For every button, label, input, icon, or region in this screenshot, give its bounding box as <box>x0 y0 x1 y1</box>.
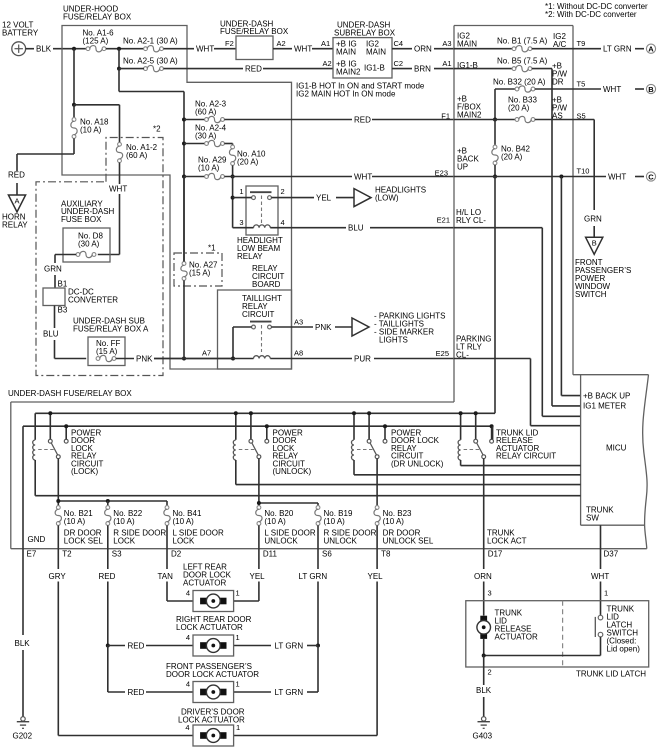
node unlock fuse branch <box>257 501 261 505</box>
svg-text:(30 A): (30 A) <box>78 240 100 249</box>
node A2 branch junction <box>117 47 121 51</box>
svg-text:E21: E21 <box>437 216 450 225</box>
svg-text:ORN: ORN <box>474 572 492 581</box>
svg-text:(20 A): (20 A) <box>501 153 523 162</box>
svg-text:WHT: WHT <box>591 572 609 581</box>
fuse B23 (10 A) DR DOOR UNLOCK SEL / pin T8 <box>374 506 434 559</box>
headlight low beam relay <box>237 186 285 261</box>
svg-text:RED: RED <box>354 116 371 125</box>
svg-text:D11: D11 <box>263 550 278 559</box>
horn relay triangle A <box>2 195 28 230</box>
wire D2 to left rear actuator (TAN) <box>158 549 193 601</box>
svg-text:T8: T8 <box>381 550 391 559</box>
wire LT GRN down to front passenger actuator <box>234 646 318 697</box>
wire D37 to trunk lid latch switch (WHT) <box>591 549 609 616</box>
svg-text:(10 A): (10 A) <box>264 517 286 526</box>
svg-text:D37: D37 <box>604 550 619 559</box>
wire UNLOCK relay output to unlock fuses <box>259 459 318 506</box>
wire subrelay C4 to right box A3 (ORN) <box>392 39 454 54</box>
wire E25 to MICU <box>454 359 581 426</box>
wire taillight coil A8 to E25 (PUR) <box>270 349 454 364</box>
wire D8 to DC-DC converter (GRN) <box>44 255 68 289</box>
wire RED branch to right rear actuator <box>108 641 193 650</box>
svg-text:BLK: BLK <box>476 686 492 695</box>
ground G403 <box>473 717 493 741</box>
svg-text:RELAY CIRCUIT: RELAY CIRCUIT <box>496 452 556 461</box>
pin T5 +B P/W DR to connector B (WHT) <box>552 62 621 95</box>
svg-text:B: B <box>592 239 597 248</box>
wire trunk relay output to D17 <box>483 459 485 549</box>
wire D11 to left rear actuator (YEL) <box>234 549 265 601</box>
node lock fuse branch B21 <box>56 499 60 503</box>
wire +B BACK UP to MICU <box>561 177 580 396</box>
trunk lid latch box <box>466 601 649 679</box>
svg-text:G202: G202 <box>13 731 33 740</box>
svg-text:4: 4 <box>186 589 190 598</box>
svg-text:ACTUATOR: ACTUATOR <box>183 579 226 588</box>
svg-text:WHT: WHT <box>294 45 312 54</box>
svg-text:No. A2-5 (30 A): No. A2-5 (30 A) <box>123 57 178 66</box>
svg-text:*1: *1 <box>208 244 216 253</box>
wire A1-2 to fuse D8 (WHT) <box>98 163 128 255</box>
svg-text:FUSE/RELAY BOX A: FUSE/RELAY BOX A <box>73 325 149 334</box>
svg-text:E25: E25 <box>436 349 449 358</box>
svg-text:A/C: A/C <box>553 40 567 49</box>
svg-text:A2: A2 <box>277 39 286 48</box>
wire junction down to A2-5 row <box>118 49 120 69</box>
fuse A27 (15 A) <box>181 177 218 359</box>
terminal C <box>635 176 644 178</box>
wire taillight relay switch to A3 (PNK) <box>233 318 352 359</box>
node lock fuse branch B22 <box>106 499 110 503</box>
parking lights / taillights / side marker lights target <box>352 312 445 345</box>
pin label E21 H/L LO RLY CL- <box>456 208 486 225</box>
svg-text:C: C <box>648 172 654 181</box>
wire A2-5 to subrelay box A2 (RED) <box>119 59 333 74</box>
pin T9 IG2 A/C to connector A (LT GRN) <box>553 32 632 54</box>
svg-text:3: 3 <box>239 218 243 227</box>
svg-text:LOCK ACT: LOCK ACT <box>487 537 527 546</box>
svg-text:YEL: YEL <box>368 572 384 581</box>
pin label E23 +B BACK UP <box>457 147 479 172</box>
fuse B33 (20 A) <box>454 96 573 123</box>
under-hood fuse/relay box outline <box>62 5 292 370</box>
svg-text:DR: DR <box>552 78 564 87</box>
svg-text:1: 1 <box>236 589 240 598</box>
wire T8 to driver's actuator (YEL) <box>234 549 383 736</box>
trunk lid release actuator relay circuit <box>458 411 580 465</box>
svg-text:MAIN: MAIN <box>366 48 386 57</box>
wire relay pin2 to headlights (YEL) <box>271 194 354 203</box>
svg-text:DOOR LOCK ACTUATOR: DOOR LOCK ACTUATOR <box>166 670 259 679</box>
svg-text:CONVERTER: CONVERTER <box>68 296 118 305</box>
fuse A2-1 (30 A) <box>123 37 178 52</box>
wire E23/T10 row inside box <box>454 176 573 178</box>
svg-text:F2: F2 <box>225 39 234 48</box>
svg-text:(UNLOCK): (UNLOCK) <box>273 467 312 476</box>
svg-text:IG2 MAIN HOT In ON mode: IG2 MAIN HOT In ON mode <box>296 90 396 99</box>
svg-text:1: 1 <box>236 633 240 642</box>
wire DR UNLOCK relay output to B23 <box>376 459 378 506</box>
fuse B42 (20 A) <box>492 120 531 177</box>
svg-text:A7: A7 <box>202 349 211 358</box>
power door lock relay circuit (LOCK) <box>33 411 581 495</box>
svg-text:IG1-B: IG1-B <box>364 64 385 73</box>
front passenger power window switch triangle B <box>575 237 631 299</box>
svg-text:+B BACK UP: +B BACK UP <box>583 392 630 401</box>
svg-text:No. B32 (20 A): No. B32 (20 A) <box>493 78 546 87</box>
svg-text:(10 A): (10 A) <box>173 517 195 526</box>
svg-text:RED: RED <box>128 641 145 650</box>
svg-text:1: 1 <box>604 589 608 598</box>
wire A10 junction down to headlight relay <box>232 177 234 228</box>
dash-dot boundary *2 with DC-DC converter region <box>36 125 163 376</box>
wire B5 to MICU IG1 METER <box>532 69 581 406</box>
svg-text:MAIN2: MAIN2 <box>336 68 361 77</box>
svg-text:(10 A): (10 A) <box>198 164 220 173</box>
node A2-5 feed <box>117 67 121 71</box>
node A29/A10 junction <box>231 175 235 179</box>
under-dash subrelay box <box>333 21 396 79</box>
svg-text:3: 3 <box>488 589 492 598</box>
wire S3 unlock feed (RED) <box>99 549 116 646</box>
svg-text:LOCK: LOCK <box>173 537 195 546</box>
fuse B19 (10 A) R SIDE DOOR UNLOCK / pin S6 <box>315 503 377 559</box>
svg-text:(LOW): (LOW) <box>375 194 399 203</box>
wire battery to under-hood box (BLK) <box>26 45 87 54</box>
svg-text:ORN: ORN <box>414 45 432 54</box>
wire A2-1 to under-dash box (WHT) <box>164 45 237 54</box>
wire A29 to right box E23 (WHT) <box>224 169 454 182</box>
wire LOCK relay output to lock fuses <box>58 459 167 506</box>
svg-text:(20 A): (20 A) <box>237 158 259 167</box>
svg-text:UP: UP <box>457 163 468 172</box>
svg-text:C2: C2 <box>394 59 404 68</box>
node +B BACK UP tap <box>559 175 563 179</box>
svg-text:LOCK: LOCK <box>113 537 135 546</box>
wire DC-DC to fuse FF (BLU) <box>43 306 86 359</box>
svg-text:B1: B1 <box>58 280 68 289</box>
node B42 to backup feed <box>493 175 497 179</box>
svg-text:1: 1 <box>236 723 240 732</box>
fuse B21 (10 A) DR DOOR LOCK SEL / pin T2 <box>55 506 103 559</box>
left rear door lock actuator <box>183 563 240 612</box>
relay circuit board label <box>252 264 285 289</box>
svg-text:A: A <box>648 45 654 54</box>
svg-text:4: 4 <box>281 218 285 227</box>
driver's door lock actuator <box>178 708 245 747</box>
wire subrelay C2 to right box A1 (BRN) <box>392 59 454 74</box>
node LT GRN branch right rear <box>316 644 320 648</box>
svg-text:PNK: PNK <box>136 354 153 363</box>
wire D17 to trunk lid release actuator (ORN) <box>474 549 492 616</box>
svg-text:No. A2-1 (30 A): No. A2-1 (30 A) <box>123 37 178 46</box>
svg-text:BLK: BLK <box>15 639 31 648</box>
svg-text:ACTUATOR: ACTUATOR <box>495 633 538 642</box>
svg-text:RLY CL-: RLY CL- <box>456 216 486 225</box>
wire E21 to MICU <box>454 228 581 417</box>
wire trunk actuator to ground G403 (BLK) <box>476 656 492 717</box>
headlights (low) target <box>354 186 426 207</box>
svg-text:GND: GND <box>28 535 46 544</box>
fuse B41 (10 A) L SIDE DOOR LOCK / pin D2 <box>164 501 224 559</box>
svg-text:FUSE/RELAY BOX: FUSE/RELAY BOX <box>220 27 289 36</box>
fuse A18 (10 A) <box>71 105 109 154</box>
DC-DC converter <box>43 288 118 306</box>
svg-text:1: 1 <box>236 680 240 689</box>
node A1-2 branch <box>72 103 76 107</box>
svg-text:A2: A2 <box>323 59 332 68</box>
svg-text:SW: SW <box>586 514 599 523</box>
terminal A <box>635 48 644 50</box>
svg-text:WHT: WHT <box>608 173 626 182</box>
fuse D8 (30 A) in auxiliary box <box>55 228 110 262</box>
svg-text:D2: D2 <box>171 550 182 559</box>
wire S6 lock feed (LT GRN) <box>299 549 328 646</box>
trunk lid release actuator motor <box>477 616 491 656</box>
svg-text:BOARD: BOARD <box>252 280 281 289</box>
svg-text:A: A <box>14 196 19 205</box>
node B33 feed junction <box>493 118 497 122</box>
svg-text:RED: RED <box>128 688 145 697</box>
svg-text:MAIN2: MAIN2 <box>457 111 482 120</box>
svg-text:*2: *2 <box>153 125 161 134</box>
svg-text:LT GRN: LT GRN <box>275 688 304 697</box>
wire relay +B supply line <box>35 412 495 414</box>
svg-text:4: 4 <box>186 680 190 689</box>
wire A2-3 to right box F1 (RED) <box>224 112 454 125</box>
svg-text:WHT: WHT <box>196 45 214 54</box>
svg-text:(60 A): (60 A) <box>195 108 217 117</box>
svg-text:LIGHTS: LIGHTS <box>379 336 408 345</box>
svg-text:(125 A): (125 A) <box>83 37 109 46</box>
pin labels IG2 MAIN (A3) <box>457 32 477 49</box>
wire under-dash box to subrelay box A1 (WHT) <box>273 39 333 54</box>
fuse A1-2 (60 A) <box>116 142 157 162</box>
svg-text:BATTERY: BATTERY <box>2 29 39 38</box>
svg-text:B3: B3 <box>58 306 68 315</box>
wire relay pin1 <box>233 197 252 199</box>
svg-text:(15 A): (15 A) <box>189 269 211 278</box>
svg-text:FUSE BOX: FUSE BOX <box>61 215 102 224</box>
svg-text:E7: E7 <box>27 550 37 559</box>
pin S5 +B P/W AS to power window switch <box>552 96 594 211</box>
svg-text:WHT: WHT <box>354 173 372 182</box>
wire battery junction down to A18/A1-2 branch <box>73 49 75 105</box>
svg-text:MAIN: MAIN <box>336 48 356 57</box>
svg-text:Lid open): Lid open) <box>607 645 641 654</box>
node A27 junction on PNK wire <box>182 357 186 361</box>
right rear door lock actuator <box>176 615 252 656</box>
svg-text:T9: T9 <box>577 39 586 48</box>
svg-text:MICU: MICU <box>606 444 627 453</box>
svg-text:B: B <box>648 85 654 94</box>
taillight relay circuit box <box>218 290 292 369</box>
wire relay ground/contact line from E7 GND <box>23 426 493 549</box>
battery 12V <box>2 21 39 56</box>
node A2-3 feed <box>182 118 186 122</box>
wire relay coil to E21 (BLU) <box>233 216 454 233</box>
svg-text:LT GRN: LT GRN <box>603 45 632 54</box>
svg-text:BLU: BLU <box>348 224 364 233</box>
svg-text:(10 A): (10 A) <box>383 517 405 526</box>
svg-text:2: 2 <box>281 187 285 196</box>
node taillight coil junction <box>231 357 235 361</box>
svg-text:RELAY: RELAY <box>2 221 28 230</box>
svg-text:BRN: BRN <box>414 65 431 74</box>
auxiliary under-dash fuse box label <box>61 200 115 224</box>
wire A7/PNK into taillight coil <box>154 349 254 359</box>
svg-text:YEL: YEL <box>250 572 266 581</box>
wire LT GRN branch to right rear actuator <box>234 641 318 650</box>
svg-text:T10: T10 <box>577 167 590 176</box>
svg-text:A8: A8 <box>294 349 303 358</box>
svg-text:MAIN: MAIN <box>457 40 477 49</box>
pin label E25 PARKING LT RLY CL- <box>456 335 491 360</box>
under-dash fuse/relay box (B-fuse section) outline <box>454 26 573 403</box>
wire GRN to front passenger power window switch <box>584 215 602 238</box>
svg-text:RED: RED <box>8 171 25 180</box>
svg-text:*2: With DC-DC converter: *2: With DC-DC converter <box>545 10 637 19</box>
svg-text:F1: F1 <box>441 112 450 121</box>
fuse A1-6 (125 A) <box>83 29 115 52</box>
svg-text:RED: RED <box>99 572 116 581</box>
pin T10 to connector C (WHT) <box>573 167 626 182</box>
trunk lid latch switch <box>595 605 640 654</box>
svg-text:TRUNK LID LATCH: TRUNK LID LATCH <box>576 670 646 679</box>
taillight relay <box>250 322 272 359</box>
fuse B1 (7.5 A) <box>454 37 573 52</box>
svg-text:T2: T2 <box>62 550 72 559</box>
svg-text:GRN: GRN <box>584 215 602 224</box>
svg-text:LOCK SEL: LOCK SEL <box>64 537 104 546</box>
power door lock relay circuit (UNLOCK) <box>233 411 580 484</box>
svg-text:LT GRN: LT GRN <box>275 641 304 650</box>
dash-dot boundary *1 around fuse A27 <box>174 244 222 287</box>
svg-text:PNK: PNK <box>315 323 332 332</box>
wire A1-6 to A2-1 <box>106 48 144 50</box>
under-dash fuse/relay box (pass-through F2 to A2) <box>220 19 289 59</box>
fuse A10 (20 A) <box>229 144 266 177</box>
svg-text:YEL: YEL <box>316 194 332 203</box>
node RED branch right rear <box>106 644 110 648</box>
wire branch to fuse A1-2 <box>74 105 120 143</box>
svg-text:PUR: PUR <box>354 354 371 363</box>
fuse B20 (10 A) L SIDE DOOR UNLOCK / pin D11 <box>256 506 316 559</box>
svg-text:LOCK ACTUATOR: LOCK ACTUATOR <box>176 623 243 632</box>
wire B42 feed down to door lock relay supply <box>494 177 496 414</box>
svg-text:RED: RED <box>245 65 262 74</box>
svg-text:G403: G403 <box>473 731 493 740</box>
svg-text:WHT: WHT <box>603 85 621 94</box>
ground G202 <box>13 717 33 741</box>
svg-text:(10 A): (10 A) <box>113 517 135 526</box>
power door lock relay circuit (DR UNLOCK) <box>352 411 581 475</box>
svg-text:RELAY: RELAY <box>237 252 263 261</box>
node A29 feed <box>182 175 186 179</box>
note IG1-B / IG2 MAIN hot modes <box>296 82 425 99</box>
svg-text:(10 A): (10 A) <box>324 517 346 526</box>
wire T2 to driver's actuator (GRY) <box>49 549 193 736</box>
fuse A2-4 (30 A) <box>184 124 233 147</box>
svg-text:SWITCH: SWITCH <box>575 290 607 299</box>
fuse B22 (10 A) R SIDE DOOR LOCK / pin S3 <box>105 501 167 559</box>
svg-text:BLU: BLU <box>43 330 59 339</box>
wire E7 to ground G202 (BLK) <box>15 549 31 717</box>
svg-text:SUBRELAY BOX: SUBRELAY BOX <box>334 28 396 37</box>
svg-text:4: 4 <box>185 723 189 732</box>
svg-text:AS: AS <box>552 112 563 121</box>
svg-text:(15 A): (15 A) <box>96 347 118 356</box>
under-dash sub fuse/relay box A with fuse FF (15 A) <box>73 317 149 366</box>
pin label F1 +B F/BOX MAIN2 <box>457 95 482 120</box>
fuse A29 (10 A) <box>184 156 227 180</box>
svg-text:(60 A): (60 A) <box>126 151 148 160</box>
node headlight relay pin1 junction <box>231 196 235 200</box>
svg-text:UNDER-DASH FUSE/RELAY BOX: UNDER-DASH FUSE/RELAY BOX <box>8 389 132 398</box>
svg-text:(30 A): (30 A) <box>195 132 217 141</box>
node A2-4 feed <box>182 142 186 146</box>
wire feeder from A2-5 junction down to A-fuse bank <box>119 69 184 262</box>
fuse A2-3 (60 A) <box>184 100 227 123</box>
svg-text:IG1 METER: IG1 METER <box>583 402 626 411</box>
svg-text:E23: E23 <box>435 169 448 178</box>
svg-text:GRN: GRN <box>44 265 62 274</box>
svg-text:A1: A1 <box>442 59 451 68</box>
svg-text:TAN: TAN <box>158 572 174 581</box>
svg-text:WHT: WHT <box>109 185 127 194</box>
fuse A2-5 (30 A) <box>123 57 178 72</box>
svg-text:D17: D17 <box>488 550 503 559</box>
wire A18 to horn relay (RED) <box>8 154 74 195</box>
note *1/*2 DC-DC converter legend <box>545 2 648 19</box>
wire FF to taillight relay A7 (PNK) <box>116 354 232 363</box>
svg-text:UNLOCK: UNLOCK <box>264 537 298 546</box>
wire RED down to front passenger actuator <box>108 646 193 697</box>
svg-text:A3: A3 <box>442 39 451 48</box>
wire trunk relay contact from ground line <box>492 426 494 439</box>
svg-text:UNLOCK: UNLOCK <box>324 537 358 546</box>
svg-text:C4: C4 <box>394 39 404 48</box>
svg-text:(20 A): (20 A) <box>508 104 530 113</box>
under-dash fuse/relay box (door lock section) outline <box>8 389 647 549</box>
svg-text:4: 4 <box>186 633 190 642</box>
svg-text:(LOCK): (LOCK) <box>71 467 98 476</box>
svg-text:FUSE/RELAY BOX: FUSE/RELAY BOX <box>63 13 132 22</box>
MICU box <box>573 375 649 549</box>
terminal B <box>635 88 644 90</box>
svg-text:A1: A1 <box>321 39 330 48</box>
pin D17 TRUNK LOCK ACT <box>487 529 527 559</box>
svg-text:UNLOCK SEL: UNLOCK SEL <box>383 537 434 546</box>
fuse B32 (20 A) <box>493 78 573 120</box>
svg-text:S6: S6 <box>322 550 332 559</box>
svg-text:(10 A): (10 A) <box>64 517 86 526</box>
wire latch switch to actuator return <box>484 637 601 656</box>
svg-text:2: 2 <box>488 668 492 677</box>
svg-text:No. B1 (7.5 A): No. B1 (7.5 A) <box>497 37 548 46</box>
svg-text:CIRCUIT: CIRCUIT <box>242 310 275 319</box>
front passenger's door lock actuator <box>166 662 259 703</box>
svg-text:LT GRN: LT GRN <box>299 572 328 581</box>
node trunk actuator return junction <box>482 654 486 658</box>
svg-text:A3: A3 <box>294 318 303 327</box>
fuse B5 (7.5 A) <box>454 57 548 72</box>
svg-text:T5: T5 <box>577 80 586 89</box>
node battery feed junction <box>72 47 76 51</box>
svg-text:S3: S3 <box>112 550 122 559</box>
svg-text:1: 1 <box>239 187 243 196</box>
